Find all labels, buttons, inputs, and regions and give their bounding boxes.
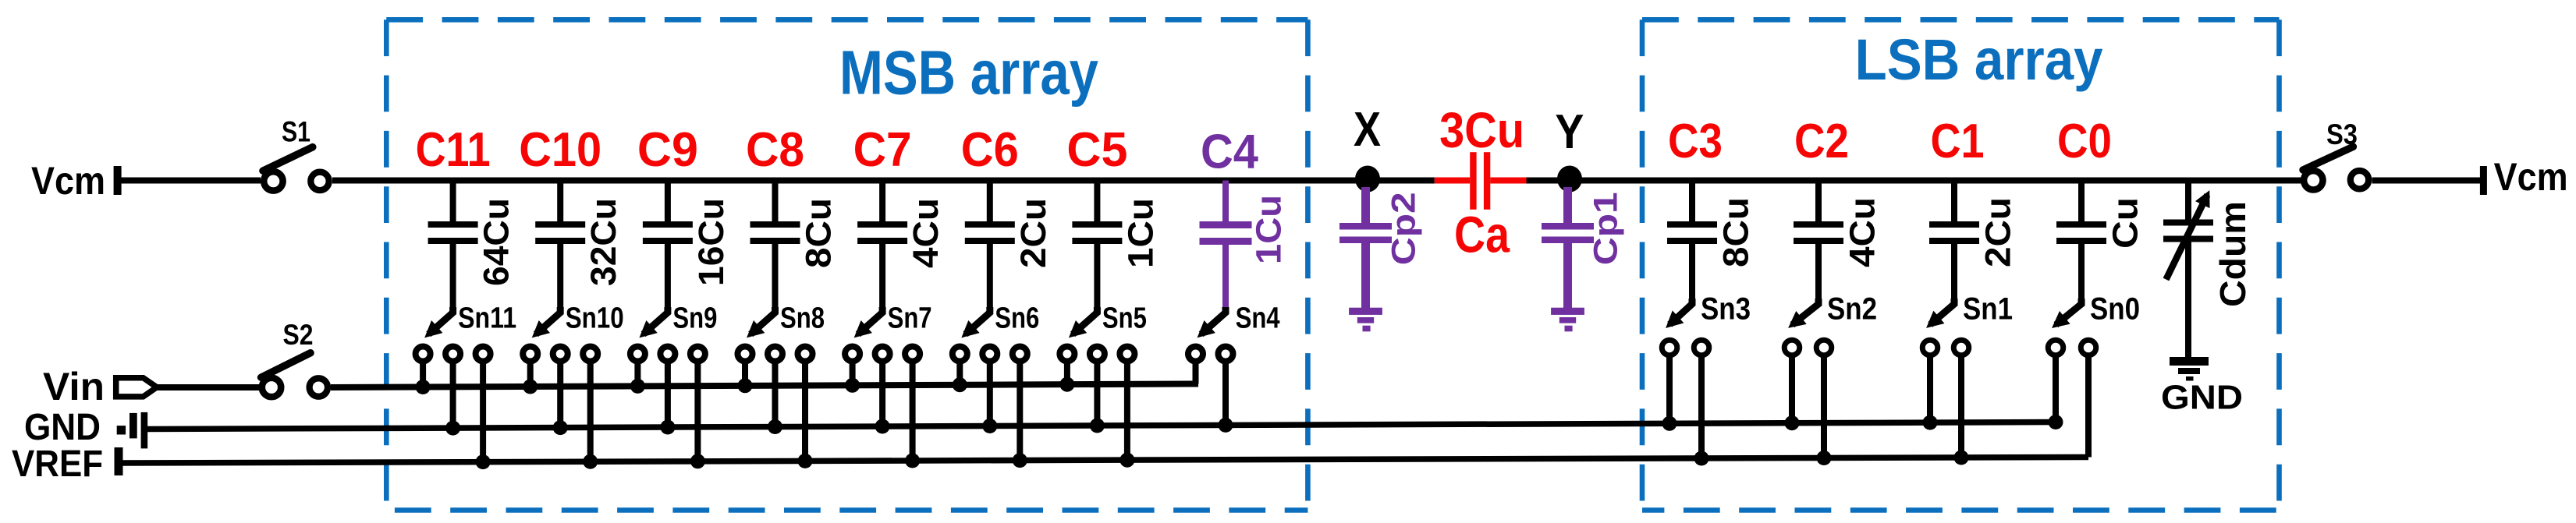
switch Sn9 arrow — [665, 244, 671, 309]
node junction Sn5 GND — [1090, 419, 1105, 433]
ground Cp1 — [1551, 308, 1584, 315]
node junction Sn11 VREF — [476, 454, 491, 469]
svg-text:Cu: Cu — [2106, 197, 2145, 249]
capacitor C2 — [1815, 181, 1822, 222]
capacitor Cdum — [2185, 181, 2191, 220]
svg-text:4Cu: 4Cu — [1843, 197, 1882, 267]
node junction Sn11 Vin — [416, 380, 431, 394]
svg-text:16Cu: 16Cu — [691, 198, 731, 286]
node junction Sn7 Vin — [845, 378, 860, 393]
svg-text:Sn11: Sn11 — [458, 302, 516, 334]
node Sn0 contacts — [2048, 340, 2063, 355]
capacitor Ca — [1470, 152, 1476, 210]
wire Sn11 contact stems — [420, 354, 426, 387]
MSB array dashed box — [386, 17, 1308, 23]
node Sn4 contacts — [1188, 347, 1203, 362]
svg-text:Sn6: Sn6 — [995, 302, 1039, 334]
svg-text:64Cu: 64Cu — [477, 198, 516, 286]
wire Vin port to S2 — [158, 384, 259, 390]
switch Sn7 arrow — [879, 244, 885, 309]
node Vcm right terminal — [2480, 166, 2487, 195]
switch Sn4 arrow — [1222, 244, 1229, 309]
node junction Sn1 GND — [1923, 415, 1938, 430]
svg-text:2Cu: 2Cu — [1013, 198, 1053, 268]
svg-text:1Cu: 1Cu — [1120, 198, 1160, 268]
wire Sn8 contact stems — [742, 354, 748, 386]
svg-text:8Cu: 8Cu — [1716, 197, 1756, 267]
svg-text:Sn0: Sn0 — [2090, 292, 2140, 327]
switch S1 — [263, 147, 313, 171]
wire Vin rail — [331, 384, 1198, 388]
capacitor C8 — [772, 181, 779, 222]
svg-text:Vcm: Vcm — [31, 159, 105, 203]
svg-text:C7: C7 — [853, 123, 912, 177]
svg-text:C2: C2 — [1794, 115, 1849, 168]
node Sn8 contacts — [738, 347, 753, 362]
wire Sn5 contact stems — [1064, 354, 1070, 384]
capacitor Cp2 — [1361, 187, 1370, 223]
node Sn10 contacts — [523, 347, 538, 362]
switch Sn10 arrow — [557, 244, 563, 309]
svg-text:S1: S1 — [282, 115, 310, 147]
svg-text:C1: C1 — [1931, 115, 1985, 168]
switch Sn8 arrow — [772, 244, 779, 309]
svg-text:Sn8: Sn8 — [780, 302, 825, 334]
capacitor C10 — [557, 181, 563, 222]
wire red right — [1490, 178, 1526, 184]
svg-text:C0: C0 — [2057, 115, 2112, 168]
node junction Sn3 GND — [1662, 416, 1677, 431]
LSB array dashed box — [1642, 17, 2280, 23]
node junction Sn6 VREF — [1013, 453, 1027, 468]
svg-text:C4: C4 — [1201, 125, 1258, 179]
wire Sn1 contact stems — [1927, 348, 1933, 422]
node junction Sn9 Vin — [630, 379, 645, 394]
svg-text:C9: C9 — [637, 123, 698, 177]
svg-text:C10: C10 — [519, 123, 601, 177]
node junction Sn2 VREF — [1817, 451, 1832, 465]
switch Sn1 arrow — [1951, 244, 1957, 301]
node Y — [1557, 166, 1582, 193]
ground Cp2 — [1349, 308, 1382, 315]
node junction Sn4 GND — [1219, 418, 1233, 433]
node junction Sn7 GND — [875, 419, 890, 434]
node junction Sn8 GND — [768, 419, 782, 434]
svg-text:GND: GND — [2161, 379, 2243, 417]
capacitor C11 — [450, 181, 456, 222]
capacitor C3 — [1689, 181, 1695, 222]
capacitor Cp1 — [1563, 187, 1572, 223]
svg-text:Sn3: Sn3 — [1701, 292, 1751, 327]
svg-text:Ca: Ca — [1454, 206, 1510, 263]
node junction Sn5 VREF — [1119, 453, 1134, 468]
capacitor C0 — [2078, 181, 2085, 222]
switch Sn0 arrow — [2078, 244, 2085, 301]
wire Sn3 contact stems — [1666, 348, 1673, 423]
wire VREF rail — [122, 458, 2088, 464]
svg-text:Y: Y — [1555, 105, 1584, 159]
svg-text:Sn7: Sn7 — [888, 302, 932, 334]
ground Cdum GND — [2170, 357, 2209, 366]
svg-text:Cdum: Cdum — [2212, 201, 2253, 307]
svg-text:Sn2: Sn2 — [1827, 292, 1877, 327]
node junction Sn3 VREF — [1694, 451, 1709, 466]
svg-text:S2: S2 — [283, 319, 314, 351]
svg-text:1Cu: 1Cu — [1249, 195, 1289, 264]
svg-text:Vin: Vin — [43, 365, 105, 408]
node junction Sn10 VREF — [583, 454, 598, 469]
svg-text:Sn10: Sn10 — [566, 302, 624, 334]
node junction Sn9 GND — [660, 420, 675, 435]
switch Sn2 arrow — [1815, 244, 1822, 301]
svg-text:C5: C5 — [1066, 123, 1127, 177]
node junction Sn11 GND — [445, 421, 460, 436]
svg-text:32Cu: 32Cu — [584, 198, 623, 286]
svg-text:2Cu: 2Cu — [1978, 197, 2018, 267]
node Sn7 contacts — [845, 347, 860, 362]
svg-text:LSB array: LSB array — [1855, 27, 2103, 92]
svg-text:C6: C6 — [961, 123, 1019, 177]
svg-text:Sn9: Sn9 — [672, 302, 717, 334]
capacitor C7 — [879, 181, 885, 222]
svg-text:Sn5: Sn5 — [1102, 302, 1147, 334]
svg-text:S3: S3 — [2326, 118, 2358, 150]
svg-text:Sn4: Sn4 — [1236, 302, 1280, 334]
wire Sn10 contact stems — [527, 354, 534, 387]
svg-text:8Cu: 8Cu — [799, 198, 839, 268]
node Sn3 contacts — [1662, 340, 1677, 355]
capacitor C6 — [987, 181, 993, 222]
switch Sn6 arrow — [987, 244, 993, 309]
wire GND rail — [147, 422, 2057, 429]
wire Sn9 contact stems — [634, 354, 640, 386]
node Sn6 contacts — [953, 347, 967, 362]
switch S3 — [2303, 147, 2353, 170]
node junction Sn0 GND — [2049, 415, 2063, 429]
svg-text:MSB array: MSB array — [839, 37, 1098, 107]
svg-text:X: X — [1354, 103, 1381, 157]
node junction Sn1 VREF — [1954, 451, 1969, 465]
wire main bus — [332, 178, 1435, 184]
node junction Sn5 Vin — [1059, 377, 1074, 392]
capacitor C1 — [1951, 181, 1957, 222]
node Sn5 contacts — [1059, 347, 1074, 362]
wire Sn6 contact stems — [956, 354, 963, 385]
capacitor C5 — [1094, 181, 1100, 222]
capacitor C4 — [1222, 181, 1229, 222]
wire bus Y-to-S3 — [1527, 178, 2302, 184]
node Sn2 contacts — [1784, 340, 1800, 355]
capacitor C9 — [665, 181, 671, 222]
node Sn11 contacts — [416, 347, 431, 362]
node junction Sn10 GND — [553, 420, 568, 435]
node GND terminal — [117, 426, 126, 434]
svg-text:Vcm: Vcm — [2494, 155, 2568, 199]
wire Sn7 contact stems — [850, 354, 856, 385]
wire Sn0 contact stems — [2053, 348, 2059, 422]
svg-text:VREF: VREF — [12, 443, 103, 485]
node Vcm left terminal — [114, 166, 122, 195]
switch Sn11 arrow — [450, 244, 456, 309]
node junction Sn8 Vin — [738, 378, 753, 393]
node Vin port — [116, 378, 157, 397]
node junction Sn7 VREF — [905, 454, 920, 468]
svg-text:Cp2: Cp2 — [1385, 192, 1422, 265]
wire Sn4 contact stems — [1193, 354, 1199, 384]
node Sn1 contacts — [1922, 340, 1938, 355]
node junction Sn2 GND — [1785, 415, 1800, 430]
wire Sn2 contact stems — [1789, 348, 1795, 423]
switch S2 — [261, 353, 310, 377]
node Sn9 contacts — [630, 347, 645, 362]
node junction Sn9 VREF — [690, 454, 705, 468]
switch Sn3 arrow — [1689, 244, 1695, 301]
node X — [1355, 166, 1380, 193]
svg-text:C11: C11 — [416, 123, 491, 177]
node junction Sn10 Vin — [523, 380, 538, 394]
wire Vcm bus left — [117, 178, 261, 184]
node junction Sn6 Vin — [953, 377, 967, 392]
svg-text:4Cu: 4Cu — [906, 198, 946, 268]
svg-text:Cp1: Cp1 — [1587, 192, 1624, 265]
node VREF terminal — [115, 447, 123, 475]
node junction Sn8 VREF — [798, 454, 813, 468]
node junction Sn6 GND — [982, 419, 997, 433]
svg-text:GND: GND — [24, 407, 101, 448]
switch Sn5 arrow — [1094, 244, 1100, 309]
svg-text:C3: C3 — [1668, 115, 1723, 168]
svg-text:3Cu: 3Cu — [1439, 102, 1524, 158]
svg-text:Sn1: Sn1 — [1963, 292, 2013, 327]
wire red left — [1435, 178, 1470, 184]
wire bus S3-to-Vcm — [2372, 178, 2482, 184]
svg-text:C8: C8 — [746, 123, 804, 177]
